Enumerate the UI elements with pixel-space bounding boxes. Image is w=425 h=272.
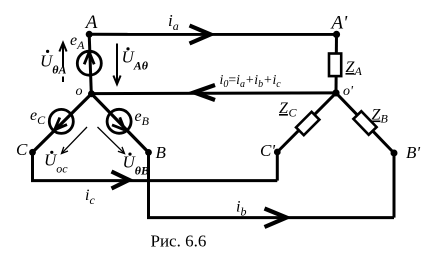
voltage arrow U_0A (up, dashed tail) [59,43,66,82]
wire C' down to i_c wire [276,152,279,181]
current arrow i_b [265,209,287,228]
wire o to o' (middle return line) [92,91,337,95]
svg-text:B: B [156,143,167,162]
svg-text:o: o [76,84,83,99]
voltage arrow U_A0 (down) [113,44,120,85]
wire B' down to i_b wire [393,153,396,218]
node B' [391,150,398,157]
svg-text:C: C [16,140,28,159]
node C [29,149,36,156]
svg-text:B': B' [406,143,420,162]
EMF source e_B (circle with down-right arrow) [107,109,131,133]
impedance Z_B (rotated rectangle) [353,111,376,134]
svg-text:o': o' [343,84,354,99]
EMF source e_A (circle with up arrow) [77,51,101,75]
EMF source e_C (circle with down-left arrow) [49,109,73,133]
label U_0B [128,153,131,156]
current arrow i_0 (pointing left) [194,85,215,100]
node B [145,149,152,156]
svg-text:C': C' [260,141,275,160]
impedance Z_C (rotated rectangle) [296,112,319,135]
voltage arrow U_0B (thin, down-right) [98,127,125,154]
svg-text:A: A [84,12,98,33]
node A' [333,31,340,38]
wire A' to o' (through Z_A) [335,34,339,93]
wire A to A' (top line) [89,33,337,36]
node o [88,90,95,97]
label U_oc [50,151,53,154]
wire o to B (through e_B) [92,94,149,153]
wire o' to B' (through Z_B) [336,93,394,153]
voltage arrow U_oc (thin, down-left) [62,127,88,154]
wire o to C (through e_C) [33,94,92,153]
svg-text:A': A' [330,13,349,34]
current arrow i_c [112,172,130,189]
label U_0A [46,50,49,53]
label U_A0 [126,47,129,50]
svg-text:A: A [354,64,363,78]
impedance Z_A (rectangle) [329,54,341,77]
node C' [274,149,281,156]
svg-text:Рис. 6.6: Рис. 6.6 [151,232,207,251]
svg-text:Z: Z [279,100,289,117]
svg-text:B: B [381,112,389,126]
svg-text:C: C [289,106,298,120]
node A [86,31,93,38]
wire A to o (through e_A) [89,34,91,93]
wire B down and right to under B' (i_b wire) [149,152,395,217]
current arrow i_a [190,26,211,44]
node o' [332,89,339,96]
wire C down and right to under C' (i_c wire) [33,152,278,180]
wire o' to C' (through Z_C) [277,93,336,152]
